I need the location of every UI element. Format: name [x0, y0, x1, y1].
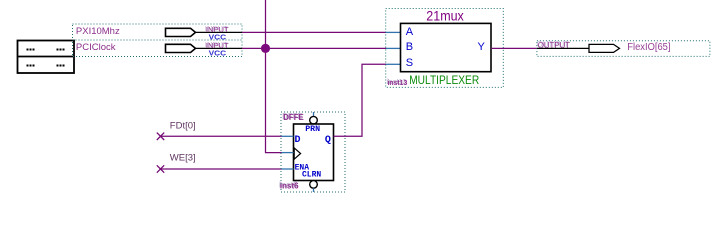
- wire mux Y to OUTPUT pin: [491, 47, 537, 49]
- svg-text:A: A: [406, 26, 414, 38]
- X endpoint FDt[0]: [157, 133, 164, 140]
- selection box pin PXI10Mhz: [73, 24, 243, 40]
- DFFE PRN bubble: [310, 116, 318, 124]
- selection box pin PCIClock: [73, 40, 243, 57]
- input pin symbol 1 (PXI10Mhz): [166, 28, 243, 36]
- output pin symbol: [589, 44, 620, 52]
- OUTPUT pin selection box: [537, 41, 710, 57]
- mux pin stub B: [386, 47, 401, 49]
- INPUT label 1 (shadow + text): [205, 24, 229, 34]
- svg-text:WE[3]: WE[3]: [170, 152, 196, 163]
- DFFE label (shadow + text): [282, 112, 303, 122]
- DFFE clock pin stub: [282, 152, 294, 154]
- mux pin stub S: [386, 63, 401, 65]
- svg-text:FlexIO[65]: FlexIO[65]: [627, 42, 670, 53]
- input pin symbol 2 (PCIClock): [166, 44, 243, 52]
- svg-text:MULTIPLEXER: MULTIPLEXER: [409, 75, 479, 87]
- svg-text:PXI10Mhz: PXI10Mhz: [76, 26, 120, 37]
- svg-text:B: B: [406, 41, 413, 53]
- DFFE clock triangle: [294, 148, 300, 159]
- svg-text:DFFE: DFFE: [283, 113, 303, 122]
- svg-text:S: S: [406, 57, 413, 69]
- wire PXI10Mhz to mux A: [242, 31, 386, 33]
- wire WE[3] to DFFE ENA: [161, 168, 282, 170]
- DFFE ENA pin stub: [282, 168, 294, 170]
- svg-text:PRN: PRN: [305, 125, 320, 134]
- OUTPUT label (shadow + text): [537, 40, 571, 50]
- table symbol (truncated pin table, top-left): [18, 41, 75, 74]
- svg-text:Y: Y: [478, 41, 486, 53]
- DFFE PRN pin stub: [313, 112, 315, 116]
- DFFE port labels: [295, 125, 331, 180]
- table dots row2: [27, 65, 65, 67]
- svg-text:FDt[0]: FDt[0]: [170, 121, 196, 132]
- svg-text:D: D: [295, 135, 301, 146]
- junction dot: [261, 44, 270, 53]
- DFFE D pin stub: [282, 135, 294, 137]
- svg-text:Q: Q: [325, 135, 331, 146]
- instance name inst13 (shadow + text): [387, 77, 408, 87]
- DFFE CLRN pin stub: [313, 188, 315, 192]
- svg-text:inst6: inst6: [280, 182, 299, 191]
- instance name inst6 (shadow + text): [279, 181, 299, 191]
- svg-text:CLRN: CLRN: [302, 170, 321, 179]
- svg-text:PCIClock: PCIClock: [76, 42, 116, 53]
- mux body: [401, 23, 492, 71]
- wire FDt[0] to DFFE D: [161, 135, 282, 137]
- DFFE selection box: [281, 112, 345, 192]
- output pin wire: [537, 47, 589, 49]
- mux selection box: [386, 9, 504, 88]
- INPUT label 2 (shadow + text): [205, 40, 229, 50]
- mux pin stub A: [386, 31, 401, 33]
- wire PCIClock to mux B: [242, 47, 386, 49]
- mux port labels: [406, 26, 486, 69]
- wire DFFE Q to mux S: [334, 64, 387, 136]
- DFFE CLRN bubble: [310, 181, 318, 189]
- DFFE body: [294, 124, 334, 181]
- svg-text:21mux: 21mux: [426, 9, 464, 24]
- vertical wire from top to DFFE clock: [266, 0, 282, 153]
- X endpoint WE[3]: [157, 165, 164, 172]
- svg-text:VCC: VCC: [209, 48, 227, 57]
- table dots row1: [27, 49, 65, 51]
- svg-text:inst13: inst13: [388, 78, 408, 87]
